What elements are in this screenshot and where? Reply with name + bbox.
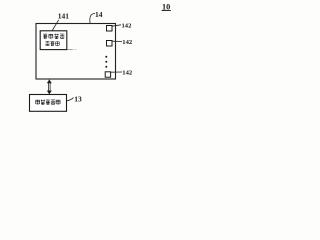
text line 控制器	[45, 41, 59, 46]
leader for label 141	[52, 20, 58, 31]
svg-text:10: 10	[162, 2, 170, 11]
controller box 141	[40, 31, 67, 50]
svg-text:14: 14	[95, 10, 103, 19]
ellipsis dots	[105, 56, 107, 68]
svg-text:142: 142	[122, 39, 133, 46]
ROM box 13	[30, 95, 67, 112]
double arrow bus between 14 and 13	[47, 80, 51, 95]
leader for label 14	[90, 13, 95, 23]
enclosure box 14	[36, 24, 116, 80]
leader for label 13	[67, 98, 74, 101]
leader for bottom 142	[111, 71, 122, 73]
svg-text:142: 142	[122, 70, 133, 77]
scan smear artifact	[67, 49, 73, 51]
connector square 142 (middle)	[107, 41, 113, 47]
leader for middle 142	[112, 40, 122, 42]
svg-text:13: 13	[74, 94, 82, 103]
text line 管理引导	[43, 34, 64, 39]
figure label 10	[162, 2, 171, 11]
svg-text:141: 141	[58, 12, 70, 21]
svg-text:142: 142	[122, 23, 133, 30]
text 只读存储器	[36, 99, 60, 104]
connector square 142 (top)	[107, 26, 113, 32]
leader for top 142	[112, 25, 121, 26]
connector square 142 (bottom)	[105, 72, 110, 77]
